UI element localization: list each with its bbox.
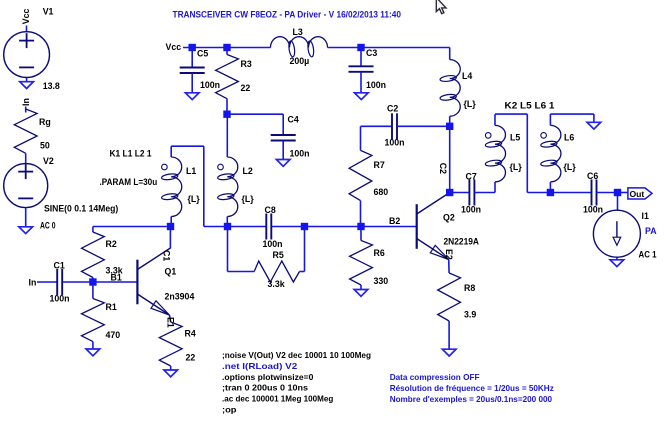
svg-text:470: 470 [106, 330, 121, 340]
svg-text:C1: C1 [161, 250, 171, 261]
svg-text:K1 L1 L2 1: K1 L1 L2 1 [110, 149, 152, 159]
svg-text:C7: C7 [466, 172, 477, 182]
svg-text:100n: 100n [200, 80, 220, 90]
svg-text:;op: ;op [222, 405, 237, 415]
svg-text:{L}: {L} [188, 194, 201, 204]
svg-text:R3: R3 [241, 59, 252, 69]
svg-text:C8: C8 [265, 205, 276, 215]
svg-text:22: 22 [186, 353, 196, 363]
svg-text:.net I(RLoad) V2: .net I(RLoad) V2 [222, 361, 298, 371]
svg-text:L3: L3 [293, 27, 303, 37]
svg-text:100n: 100n [263, 239, 283, 249]
svg-text:AC 1: AC 1 [639, 249, 657, 259]
svg-text:Vcc: Vcc [166, 42, 182, 52]
svg-text:{L}: {L} [510, 162, 523, 172]
svg-text:SINE(0 0.1 14Meg): SINE(0 0.1 14Meg) [44, 204, 118, 214]
svg-text:B2: B2 [389, 216, 400, 226]
svg-text:22: 22 [241, 83, 251, 93]
svg-text:Data compression OFF: Data compression OFF [390, 372, 480, 382]
svg-text:.ac dec 100001 1Meg 100Meg: .ac dec 100001 1Meg 100Meg [222, 394, 333, 404]
svg-text:L1: L1 [186, 166, 196, 176]
svg-text:I1: I1 [642, 211, 649, 221]
svg-text:{L}: {L} [564, 162, 577, 172]
svg-text:R5: R5 [273, 250, 284, 260]
svg-text:L2: L2 [243, 166, 253, 176]
svg-text:In: In [21, 98, 31, 106]
svg-text:C3: C3 [366, 48, 377, 58]
svg-text:V2: V2 [43, 156, 54, 166]
svg-text:2N2219A: 2N2219A [444, 237, 480, 247]
svg-text:Q2: Q2 [443, 212, 455, 222]
svg-text:Q1: Q1 [165, 266, 177, 276]
svg-text:C2: C2 [438, 163, 448, 174]
svg-text:{L}: {L} [242, 194, 255, 204]
svg-text:Rg: Rg [39, 117, 51, 127]
svg-text:Nombre d'exemples = 20us/0.1ns: Nombre d'exemples = 20us/0.1ns=200 000 [390, 394, 553, 404]
svg-text:C1: C1 [54, 261, 65, 271]
svg-text:L5: L5 [510, 132, 520, 142]
svg-text:2n3904: 2n3904 [165, 292, 195, 302]
svg-text:100n: 100n [366, 80, 386, 90]
svg-text:C5: C5 [197, 48, 208, 58]
svg-text:Vcc: Vcc [21, 9, 31, 25]
svg-text:Résolution de fréquence = 1/20: Résolution de fréquence = 1/20us = 50KHz [390, 383, 554, 393]
svg-text:In: In [29, 278, 37, 288]
svg-text:100n: 100n [290, 148, 310, 158]
svg-text:680: 680 [374, 187, 389, 197]
svg-text:R4: R4 [185, 329, 196, 339]
svg-text:R7: R7 [374, 160, 385, 170]
svg-text:B1: B1 [111, 273, 122, 283]
svg-text:;noise V(Out) V2 dec 10001 10: ;noise V(Out) V2 dec 10001 10 100Meg [222, 350, 371, 360]
svg-text:V1: V1 [43, 7, 54, 17]
svg-text:L6: L6 [564, 132, 574, 142]
svg-text:E1: E1 [165, 317, 175, 328]
svg-text:AC 0: AC 0 [40, 221, 56, 231]
svg-text:R6: R6 [374, 248, 385, 258]
svg-text:100n: 100n [385, 137, 405, 147]
svg-text:{L}: {L} [464, 99, 477, 109]
svg-text:R1: R1 [106, 302, 117, 312]
svg-text:100n: 100n [50, 294, 70, 304]
svg-text:E2: E2 [444, 249, 454, 260]
svg-text:K2 L5 L6 1: K2 L5 L6 1 [505, 101, 555, 111]
svg-text:200µ: 200µ [290, 56, 310, 66]
svg-text:.PARAM L=30u: .PARAM L=30u [100, 177, 158, 187]
svg-text:;tran 0 200us 0 10ns: ;tran 0 200us 0 10ns [222, 383, 308, 393]
svg-text:C4: C4 [288, 114, 299, 124]
svg-text:3.9: 3.9 [464, 310, 476, 320]
svg-text:TRANSCEIVER CW F8EOZ - PA Driv: TRANSCEIVER CW F8EOZ - PA Driver - V 16/… [173, 10, 402, 20]
svg-text:50: 50 [40, 141, 50, 151]
svg-text:C2: C2 [387, 104, 398, 114]
svg-text:330: 330 [374, 276, 389, 286]
svg-text:3.3k: 3.3k [268, 279, 285, 289]
svg-text:C6: C6 [587, 171, 598, 181]
svg-text:R8: R8 [464, 283, 475, 293]
svg-text:13.8: 13.8 [43, 81, 60, 91]
svg-text:.options plotwinsize=0: .options plotwinsize=0 [222, 372, 314, 382]
svg-text:100n: 100n [461, 204, 481, 214]
svg-text:100n: 100n [583, 204, 603, 214]
svg-text:Out: Out [630, 189, 645, 199]
svg-text:R2: R2 [106, 239, 117, 249]
svg-text:PA: PA [645, 226, 657, 236]
svg-text:L4: L4 [462, 71, 472, 81]
